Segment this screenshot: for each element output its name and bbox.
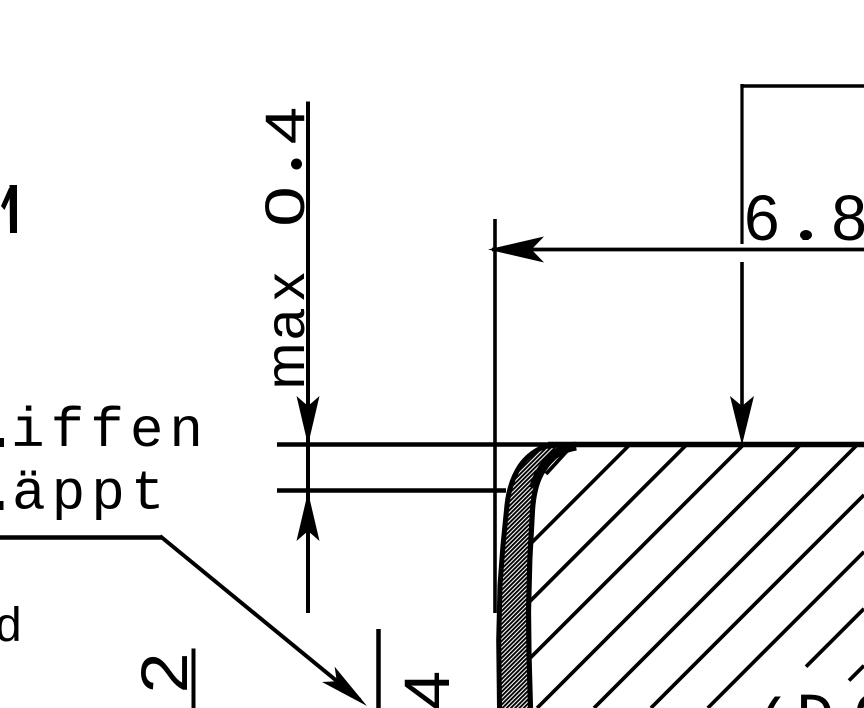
svg-text:äppt: äppt [12,462,170,526]
node label decimal dot of 6.8 [800,230,812,240]
svg-text:d: d [0,602,23,656]
svg-text:iffen: iffen [11,399,209,463]
node label 1 (section detail number, clipped at left edge) [1,185,17,233]
node coating inner contour [529,447,569,708]
node coating band fine hatch fill [499,445,568,708]
svg-text:2: 2 [128,652,201,693]
svg-text:a: a [253,308,316,340]
wire hatch line 9 of section [806,609,864,667]
wire extension line at x378 bottom [376,629,381,708]
svg-text:m: m [253,343,316,390]
wire hatch line 7 of section [651,495,864,708]
wire vertical extension at x742 upper [740,84,743,244]
wire hatch line 10 of section [849,666,864,681]
wire extension line for 6.8 at x495 [493,219,497,613]
svg-text:C: C [853,685,864,708]
wire extension line A (top face level) [277,442,566,447]
svg-text:(: ( [753,691,791,708]
node corner solid blob [534,446,577,488]
wire dimension line max 0.4 vertical [306,102,310,614]
wire arrow down at max0.4 upper [297,396,320,445]
svg-text:D: D [796,685,834,708]
wire hatch line 5 of section [537,445,801,708]
wire arrow left for 6.8 [488,237,544,263]
wire horizontal extension top right [740,84,864,87]
wire arrow down at x742 [730,396,754,445]
wire hatch line 8 of section [708,552,864,708]
svg-text:0: 0 [253,186,316,226]
wire leader arrowhead [322,667,367,706]
wire leader diagonal to coating [160,536,360,700]
wire dimension line 6.8 horizontal [492,248,864,252]
svg-text:x: x [253,273,316,301]
svg-text:6.8: 6.8 [744,182,864,254]
node label gelaeppt stub [0,501,4,510]
svg-text:4: 4 [254,107,316,144]
wire part top face [548,442,864,447]
wire hatch line 6 of section [594,445,858,708]
wire arrow up at max0.4 lower [297,492,320,541]
node coating outer contour [499,445,566,708]
wire hatch line 1 of section [546,445,573,475]
node label geschliffen stub [0,438,4,447]
wire extension line at x193 bottom [192,649,196,708]
wire hatch line 2 of section [530,445,630,545]
wire leader horizontal from note [0,535,162,539]
wire extension line B (lower level) [277,488,506,493]
svg-text:4: 4 [392,671,463,708]
wire hatch line 3 of section [529,445,687,603]
node label decimal dot of max 0.4 [291,159,302,170]
wire vertical leader at x742 lower with arrow [740,262,744,410]
wire hatch line 4 of section [529,445,744,660]
